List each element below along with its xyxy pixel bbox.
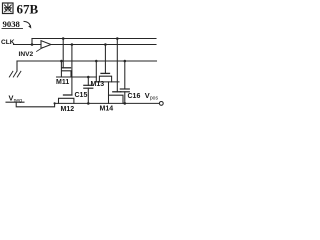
svg-text:C15: C15 — [75, 92, 88, 99]
wire CLK top line — [32, 38, 156, 40]
node gnd rail to M13 — [95, 60, 98, 63]
wire M13 to M14 link — [108, 82, 110, 95]
svg-text:9038: 9038 — [3, 19, 21, 29]
node feeder to rail — [54, 102, 56, 104]
transistor M11 — [57, 61, 97, 77]
svg-text:M12: M12 — [61, 106, 75, 113]
wire riser CLK tap to top line — [31, 39, 33, 45]
transistor M12 — [59, 95, 74, 103]
wire gnd rail — [17, 60, 157, 62]
wire CLKB line (inverter output) — [51, 44, 156, 46]
svg-text:CLK: CLK — [1, 39, 15, 46]
leader line INV2 — [37, 48, 43, 52]
svg-text:C16: C16 — [128, 93, 141, 100]
transistor M14 — [109, 92, 124, 104]
node gnd rail to M11 — [60, 60, 63, 63]
terminal Vpos circle — [159, 102, 163, 106]
wire M13 gate lead — [104, 45, 106, 74]
wire M12 gate lead — [71, 45, 73, 96]
terminal Vneg bar — [6, 101, 24, 103]
svg-text:M14: M14 — [100, 105, 114, 112]
svg-text:INV2: INV2 — [19, 51, 34, 58]
node CLKB to M12 gate — [71, 43, 74, 46]
node CLK to M14 gate — [116, 37, 119, 40]
node CLKB to M13 gate — [104, 43, 107, 46]
node C15 to bottom rail — [87, 102, 90, 105]
wire CLK input — [14, 44, 42, 46]
wire M14 gate lead — [116, 39, 118, 92]
wire Vneg feeder — [16, 102, 54, 107]
inverter INV2 triangle — [41, 41, 51, 49]
wire bottom rail — [55, 102, 160, 104]
svg-text:67B: 67B — [17, 1, 39, 16]
node CLK tap junction — [31, 43, 34, 46]
svg-text:M11: M11 — [56, 79, 69, 86]
figure label box glyph (zu kanji) — [3, 3, 14, 14]
svg-text:neg: neg — [14, 98, 23, 104]
capacitor C15 — [84, 77, 93, 103]
capacitor C16 — [120, 61, 129, 103]
node gnd rail to C16 — [124, 60, 127, 63]
leader arrow for 9038 — [24, 21, 30, 25]
wire M11 gate lead — [62, 39, 64, 68]
svg-text:pos: pos — [150, 95, 159, 101]
transistor M13 — [96, 61, 119, 82]
Vneg label — [9, 94, 23, 104]
svg-text:M13: M13 — [91, 81, 105, 88]
node mid to C15 — [87, 76, 90, 79]
node C16 to bottom rail — [124, 102, 127, 105]
Vpos label — [145, 91, 159, 101]
ground — [9, 61, 21, 77]
node CLK to M11 gate — [62, 37, 65, 40]
